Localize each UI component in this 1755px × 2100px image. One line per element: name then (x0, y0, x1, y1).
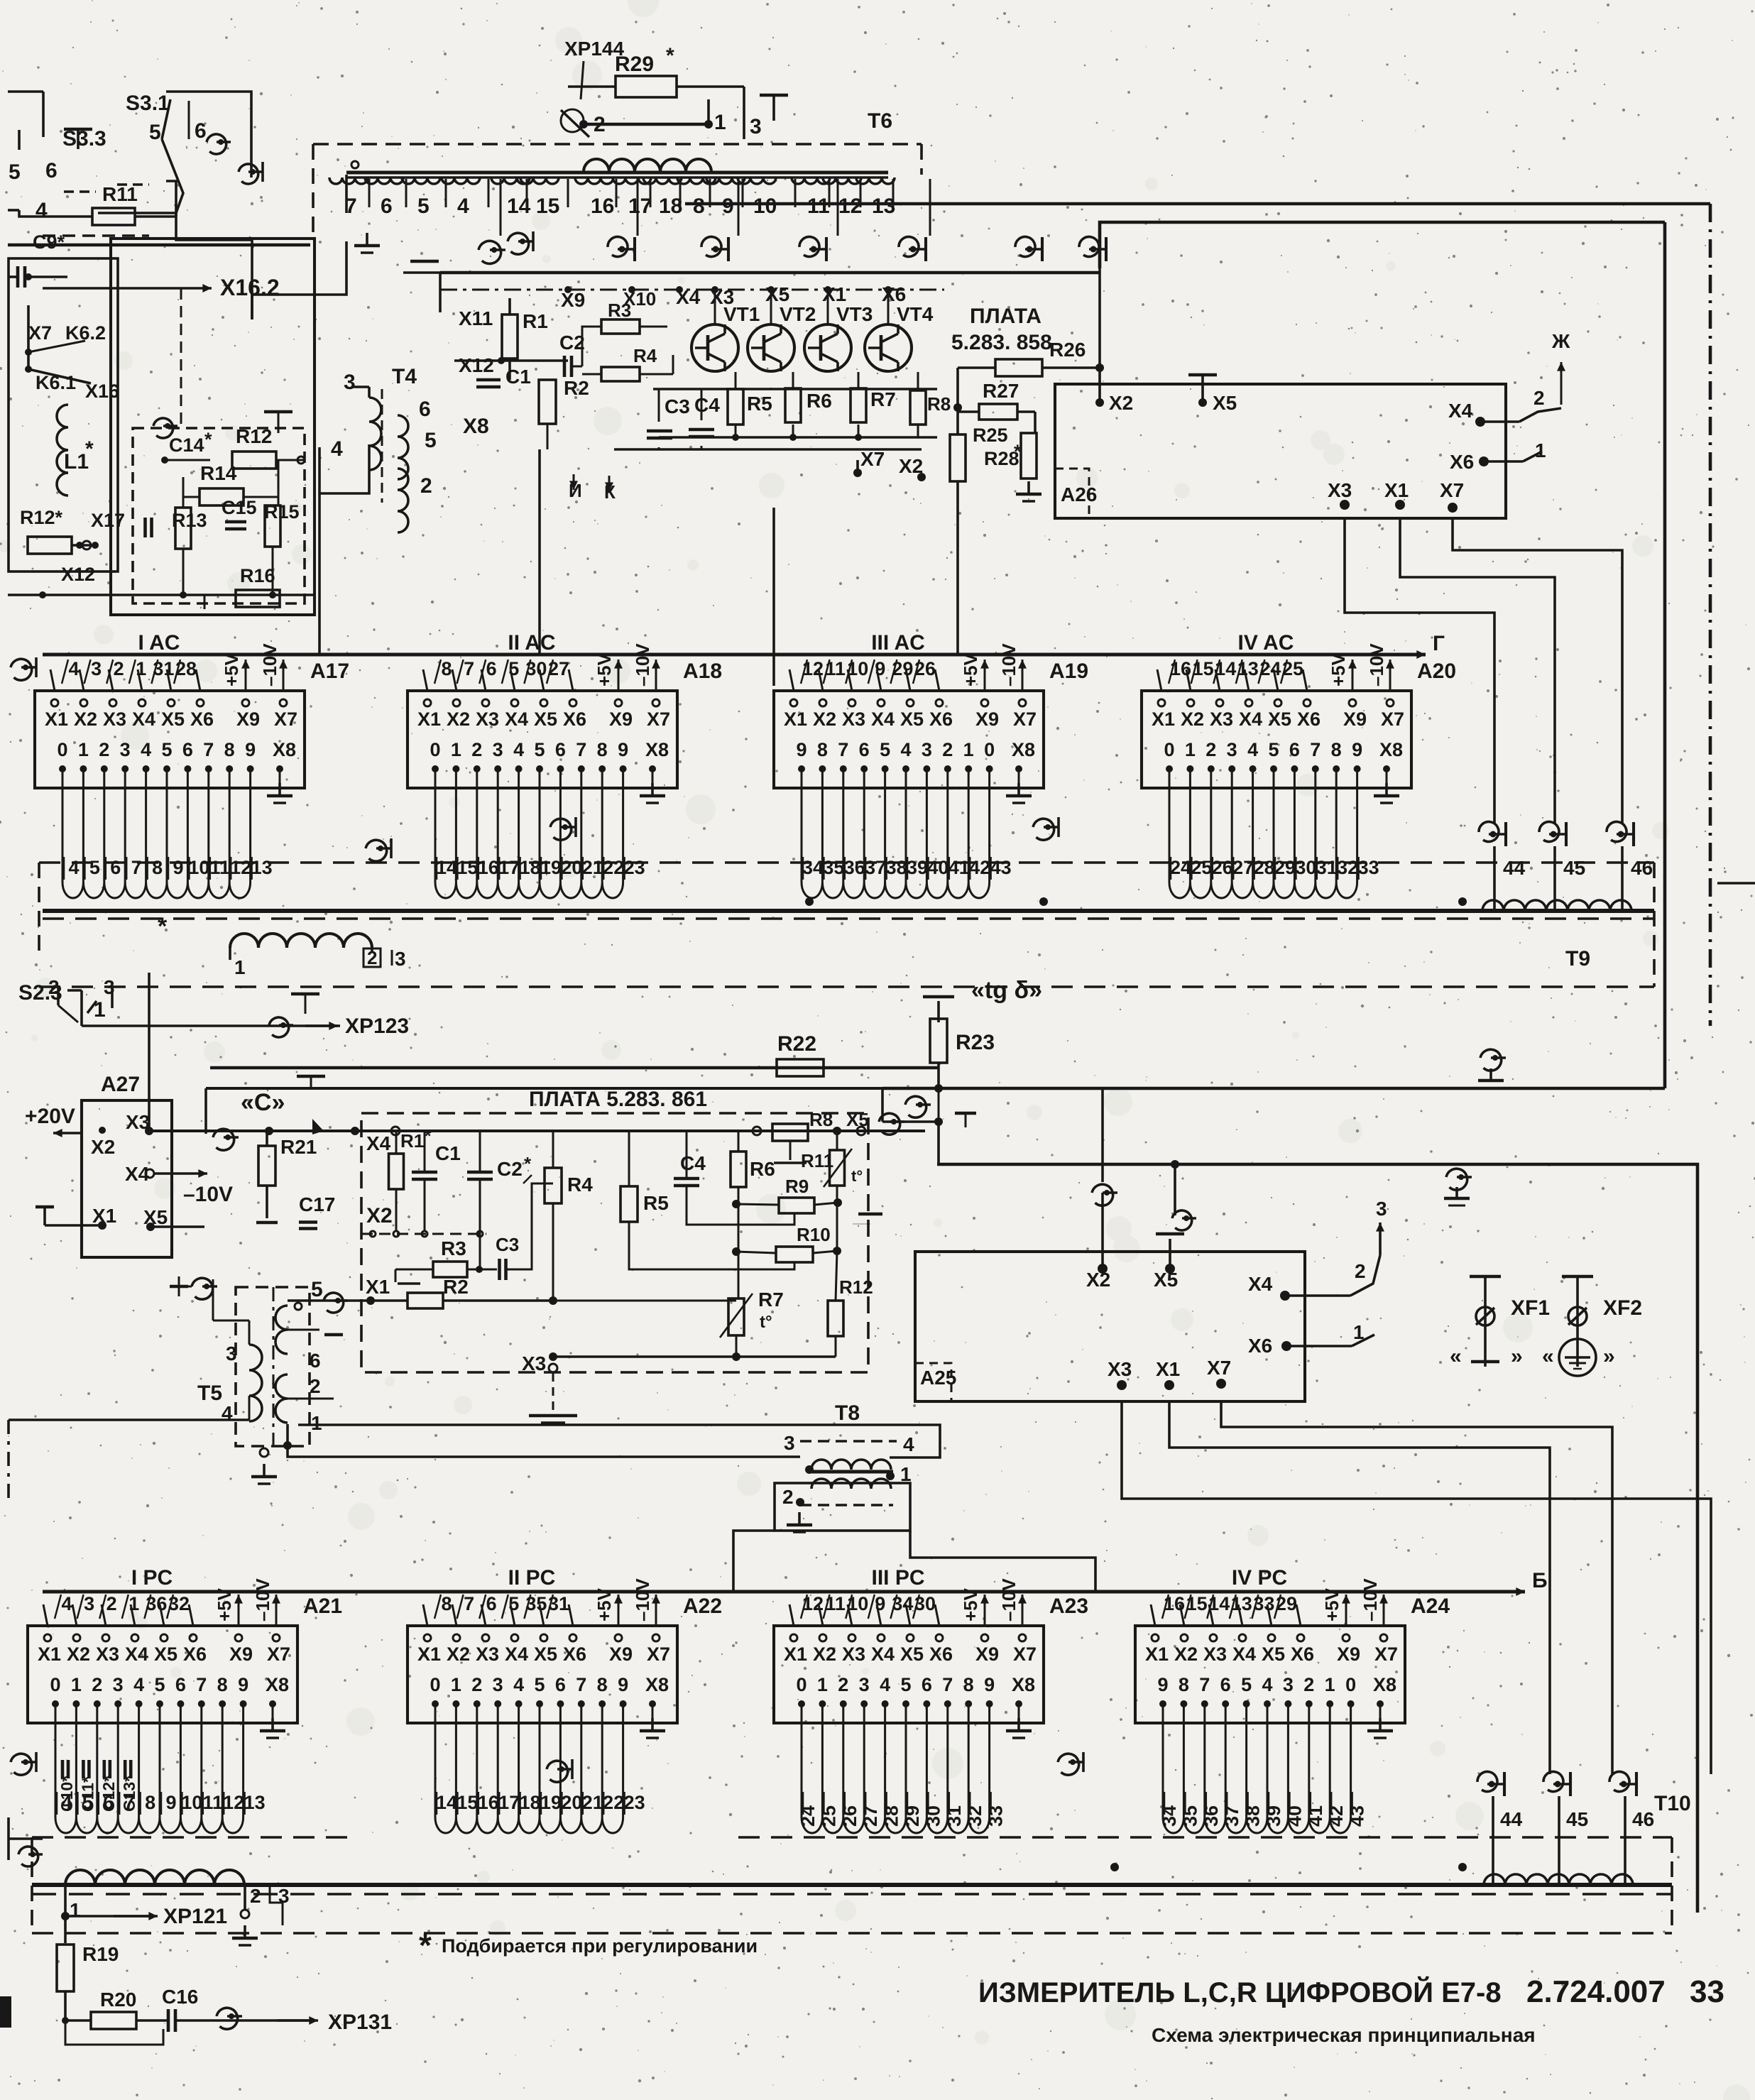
svg-text:6: 6 (1289, 739, 1300, 760)
svg-text:X8: X8 (1012, 1674, 1035, 1695)
svg-text:X8: X8 (266, 1674, 289, 1695)
svg-text:X5: X5 (1213, 392, 1237, 414)
svg-text:7: 7 (203, 739, 214, 760)
svg-text:6: 6 (310, 1350, 321, 1372)
svg-text:VT4: VT4 (897, 303, 934, 325)
svg-text:X6: X6 (1291, 1644, 1314, 1665)
svg-text:7: 7 (1310, 739, 1321, 760)
svg-text:A25: A25 (920, 1367, 956, 1389)
svg-text:36: 36 (1201, 1805, 1222, 1827)
svg-text:7: 7 (838, 739, 848, 760)
svg-text:3: 3 (395, 948, 406, 970)
svg-text:4: 4 (61, 1593, 72, 1614)
svg-text:6: 6 (381, 195, 393, 218)
svg-text:X2: X2 (91, 1136, 115, 1158)
svg-text:X5: X5 (765, 283, 789, 305)
svg-text:X5: X5 (534, 709, 557, 730)
svg-text:9: 9 (875, 1593, 885, 1614)
svg-text:«: « (1450, 1345, 1462, 1368)
svg-text:44: 44 (1503, 857, 1526, 879)
svg-text:42: 42 (969, 857, 990, 878)
svg-text:R29: R29 (615, 53, 654, 76)
svg-text:24: 24 (1170, 857, 1191, 878)
svg-text:1: 1 (714, 111, 726, 134)
svg-text:4: 4 (903, 1433, 914, 1455)
svg-text:1: 1 (1353, 1321, 1365, 1343)
svg-text:X2: X2 (447, 1644, 470, 1665)
svg-text:X5: X5 (1262, 1644, 1285, 1665)
svg-text:R14: R14 (200, 462, 237, 484)
svg-text:2.724.007: 2.724.007 (1526, 1974, 1666, 2009)
svg-text:8: 8 (1179, 1674, 1189, 1695)
svg-text:Б: Б (1532, 1569, 1548, 1592)
svg-text:9: 9 (1157, 1674, 1168, 1695)
svg-text:0: 0 (430, 1674, 440, 1695)
svg-text:3: 3 (750, 115, 762, 138)
svg-text:6: 6 (555, 739, 566, 760)
svg-text:X1: X1 (417, 709, 441, 730)
svg-text:5: 5 (534, 739, 545, 760)
svg-text:–10V: –10V (632, 643, 653, 687)
svg-text:2: 2 (1303, 1674, 1314, 1695)
svg-text:6: 6 (555, 1674, 566, 1695)
svg-text:8: 8 (441, 1593, 452, 1614)
svg-text:C3: C3 (496, 1234, 519, 1255)
svg-text:X7: X7 (1440, 479, 1464, 501)
svg-text:25: 25 (818, 1805, 839, 1827)
svg-text:1: 1 (136, 658, 146, 679)
svg-text:5: 5 (89, 857, 100, 878)
svg-text:1: 1 (963, 739, 974, 760)
svg-text:R23: R23 (956, 1031, 995, 1054)
svg-text:X1: X1 (784, 1644, 807, 1665)
svg-text:2: 2 (1355, 1260, 1366, 1282)
svg-text:X10: X10 (623, 288, 656, 310)
svg-text:4: 4 (513, 739, 524, 760)
svg-text:45: 45 (1566, 1808, 1588, 1830)
svg-text:X1: X1 (417, 1644, 441, 1665)
svg-text:X3: X3 (522, 1352, 546, 1374)
svg-text:X6: X6 (1248, 1335, 1272, 1357)
svg-text:20: 20 (561, 1792, 582, 1813)
svg-text:»: » (1603, 1345, 1615, 1368)
svg-text:X5: X5 (534, 1644, 557, 1665)
svg-text:X6: X6 (929, 709, 953, 730)
svg-text:6: 6 (1220, 1674, 1231, 1695)
svg-text:C15: C15 (222, 497, 257, 518)
svg-text:C9*: C9* (33, 231, 65, 253)
svg-text:7: 7 (196, 1674, 207, 1695)
svg-text:XP121: XP121 (163, 1905, 227, 1928)
svg-text:A27: A27 (101, 1073, 140, 1096)
svg-text:1: 1 (70, 1899, 81, 1921)
svg-text:R25: R25 (973, 425, 1008, 446)
svg-text:«: « (1542, 1345, 1554, 1368)
svg-text:22: 22 (603, 1792, 624, 1813)
svg-text:–10V: –10V (632, 1578, 653, 1622)
svg-text:X4: X4 (505, 1644, 528, 1665)
svg-text:5: 5 (508, 658, 519, 679)
svg-text:1: 1 (78, 739, 89, 760)
svg-text:3: 3 (493, 739, 503, 760)
svg-text:34: 34 (1159, 1805, 1180, 1827)
svg-text:X7: X7 (1381, 709, 1404, 730)
svg-text:29: 29 (902, 1805, 923, 1827)
svg-text:R5: R5 (643, 1192, 669, 1214)
svg-text:39: 39 (907, 857, 928, 878)
svg-text:18: 18 (520, 857, 541, 878)
svg-text:0: 0 (1164, 739, 1174, 760)
svg-text:X7: X7 (1207, 1357, 1231, 1379)
svg-text:1: 1 (234, 956, 246, 978)
svg-text:X5: X5 (161, 709, 185, 730)
svg-text:t°: t° (851, 1167, 863, 1185)
svg-text:8: 8 (145, 1792, 155, 1813)
svg-text:11: 11 (807, 195, 830, 218)
svg-text:15: 15 (536, 195, 559, 218)
svg-text:X8: X8 (1373, 1674, 1396, 1695)
svg-text:R13: R13 (172, 510, 207, 531)
svg-text:R9: R9 (785, 1176, 809, 1197)
svg-text:34: 34 (802, 857, 824, 878)
svg-text:X3: X3 (1203, 1644, 1227, 1665)
svg-text:X9: X9 (229, 1644, 253, 1665)
svg-text:A23: A23 (1049, 1595, 1088, 1618)
svg-text:32: 32 (1337, 857, 1358, 878)
svg-text:3: 3 (226, 1342, 237, 1365)
svg-text:31: 31 (944, 1805, 965, 1827)
svg-text:5: 5 (149, 121, 161, 144)
svg-text:XP123: XP123 (345, 1015, 409, 1038)
svg-text:X7: X7 (1374, 1644, 1398, 1665)
svg-text:28: 28 (881, 1805, 902, 1827)
svg-text:–10V: –10V (1366, 643, 1387, 687)
svg-text:«tg δ»: «tg δ» (971, 977, 1042, 1004)
svg-text:23: 23 (624, 857, 645, 878)
svg-text:6: 6 (45, 159, 58, 182)
svg-text:R12: R12 (236, 425, 272, 447)
svg-text:A20: A20 (1417, 660, 1456, 683)
svg-text:III PC: III PC (871, 1566, 924, 1590)
svg-text:I PC: I PC (131, 1566, 173, 1590)
svg-text:37: 37 (865, 857, 886, 878)
svg-text:1: 1 (451, 1674, 461, 1695)
svg-text:4: 4 (1262, 1674, 1272, 1695)
svg-text:X8: X8 (1379, 739, 1403, 760)
svg-text:VT3: VT3 (836, 303, 873, 325)
svg-text:28: 28 (1254, 857, 1275, 878)
svg-text:R2: R2 (443, 1276, 469, 1298)
svg-text:X3: X3 (1210, 709, 1233, 730)
svg-text:21: 21 (582, 857, 603, 878)
svg-text:12: 12 (223, 1792, 244, 1813)
svg-text:19: 19 (540, 857, 562, 878)
svg-text:6: 6 (175, 1674, 186, 1695)
svg-text:X8: X8 (645, 1674, 669, 1695)
svg-text:16: 16 (478, 857, 499, 878)
svg-text:17: 17 (498, 1792, 520, 1813)
svg-text:X6: X6 (929, 1644, 953, 1665)
svg-text:2: 2 (99, 739, 109, 760)
svg-text:X4: X4 (1239, 709, 1262, 730)
svg-text:23: 23 (624, 1792, 645, 1813)
svg-text:X4: X4 (1248, 1273, 1273, 1295)
svg-text:R4: R4 (567, 1174, 593, 1196)
svg-text:*: * (85, 437, 94, 461)
svg-text:1: 1 (311, 1412, 322, 1434)
svg-text:X4: X4 (125, 1644, 148, 1665)
svg-text:2: 2 (838, 1674, 848, 1695)
svg-text:–10V: –10V (252, 1578, 273, 1622)
svg-text:9: 9 (722, 195, 734, 218)
svg-text:12: 12 (230, 857, 251, 878)
svg-text:8: 8 (1331, 739, 1342, 760)
svg-text:5: 5 (425, 429, 437, 452)
svg-text:A24: A24 (1411, 1595, 1450, 1618)
svg-text:7: 7 (131, 857, 142, 878)
svg-text:3: 3 (1376, 1198, 1387, 1220)
svg-text:X6: X6 (190, 709, 214, 730)
svg-text:3: 3 (493, 1674, 503, 1695)
svg-text:–10V: –10V (998, 643, 1019, 687)
svg-text:X1: X1 (366, 1276, 390, 1298)
svg-text:X2: X2 (1174, 1644, 1198, 1665)
svg-text:12: 12 (838, 195, 862, 218)
svg-text:2: 2 (106, 1593, 117, 1614)
svg-text:X9: X9 (1343, 709, 1367, 730)
svg-text:9: 9 (796, 739, 807, 760)
svg-text:T10: T10 (1654, 1792, 1691, 1815)
svg-text:41: 41 (1305, 1805, 1326, 1827)
svg-text:X6: X6 (563, 709, 586, 730)
svg-text:XF1: XF1 (1511, 1296, 1550, 1320)
svg-text:2: 2 (420, 474, 432, 498)
svg-text:R7: R7 (758, 1289, 784, 1311)
svg-text:5: 5 (508, 1593, 519, 1614)
svg-text:X7: X7 (274, 709, 297, 730)
svg-text:10: 10 (188, 857, 209, 878)
svg-text:X2: X2 (1109, 392, 1133, 414)
svg-text:+20V: +20V (25, 1105, 75, 1128)
svg-text:18: 18 (659, 195, 682, 218)
svg-text:X2: X2 (74, 709, 97, 730)
svg-text:6: 6 (195, 119, 207, 143)
svg-text:26: 26 (1212, 857, 1233, 878)
svg-text:R10: R10 (797, 1224, 831, 1245)
svg-text:8: 8 (693, 195, 705, 218)
svg-text:43: 43 (1347, 1805, 1368, 1827)
svg-text:C17: C17 (299, 1193, 335, 1215)
svg-text:21: 21 (582, 1792, 603, 1813)
svg-text:R8: R8 (809, 1109, 833, 1130)
svg-text:C2: C2 (559, 332, 585, 354)
svg-text:III AC: III AC (871, 631, 925, 655)
svg-text:Подбирается при регулировани: Подбирается при регулировании (442, 1935, 758, 1957)
svg-text:33: 33 (1690, 1974, 1724, 2009)
svg-text:8: 8 (224, 739, 235, 760)
svg-text:X9: X9 (609, 709, 633, 730)
svg-text:X4: X4 (1232, 1644, 1256, 1665)
svg-text:X4: X4 (505, 709, 528, 730)
svg-text:33: 33 (985, 1805, 1007, 1827)
svg-text:R12*: R12* (20, 507, 63, 528)
svg-text:C13*: C13* (120, 1776, 138, 1812)
svg-text:11: 11 (210, 857, 231, 878)
svg-text:X8: X8 (463, 415, 489, 438)
svg-text:3: 3 (1283, 1674, 1294, 1695)
svg-text:22: 22 (603, 857, 624, 878)
svg-text:X4: X4 (132, 709, 155, 730)
svg-text:A18: A18 (683, 660, 722, 683)
svg-text:38: 38 (1242, 1805, 1264, 1827)
svg-text:X8: X8 (645, 739, 669, 760)
svg-text:9: 9 (875, 658, 885, 679)
svg-text:8: 8 (597, 1674, 608, 1695)
svg-text:29: 29 (1274, 857, 1296, 878)
svg-text:X9: X9 (975, 1644, 999, 1665)
svg-text:T6: T6 (868, 109, 892, 133)
svg-text:C14: C14 (169, 434, 204, 456)
svg-text:25: 25 (1191, 857, 1212, 878)
svg-text:X3: X3 (476, 1644, 499, 1665)
svg-text:5: 5 (534, 1674, 545, 1695)
svg-text:A21: A21 (303, 1595, 342, 1618)
svg-text:II AC: II AC (508, 631, 555, 655)
svg-text:T8: T8 (835, 1401, 860, 1425)
svg-text:4: 4 (1247, 739, 1258, 760)
svg-text:0: 0 (57, 739, 67, 760)
svg-text:C1: C1 (435, 1142, 461, 1164)
svg-text:X9: X9 (609, 1644, 633, 1665)
svg-text:C4: C4 (680, 1152, 706, 1174)
svg-text:X5: X5 (1268, 709, 1291, 730)
svg-text:*: * (158, 913, 168, 940)
svg-text:27: 27 (860, 1805, 881, 1827)
svg-text:«C»: «C» (241, 1089, 285, 1116)
svg-text:9: 9 (238, 1674, 248, 1695)
svg-text:15: 15 (456, 1792, 478, 1813)
svg-text:39: 39 (1263, 1805, 1284, 1827)
svg-text:R8: R8 (927, 393, 951, 415)
svg-text:32: 32 (964, 1805, 985, 1827)
svg-text:C11*: C11* (78, 1776, 97, 1812)
svg-text:4: 4 (513, 1674, 524, 1695)
svg-text:X3: X3 (103, 709, 126, 730)
svg-text:36: 36 (844, 857, 865, 878)
svg-text:14: 14 (436, 1792, 457, 1813)
svg-text:40: 40 (1284, 1805, 1305, 1827)
svg-text:15: 15 (456, 857, 478, 878)
svg-text:C1: C1 (505, 366, 531, 388)
svg-text:X8: X8 (1012, 739, 1035, 760)
svg-text:X17: X17 (91, 510, 125, 531)
svg-text:S3.1: S3.1 (126, 92, 170, 115)
svg-text:X1: X1 (822, 283, 846, 305)
svg-text:45: 45 (1563, 857, 1585, 879)
svg-text:10: 10 (753, 195, 777, 218)
svg-text:19: 19 (540, 1792, 562, 1813)
svg-text:17: 17 (628, 195, 652, 218)
svg-text:3: 3 (1227, 739, 1237, 760)
svg-text:X9: X9 (561, 289, 585, 311)
svg-text:R4: R4 (633, 345, 657, 366)
svg-text:X2: X2 (1086, 1269, 1110, 1291)
svg-text:A22: A22 (683, 1595, 722, 1618)
svg-text:3: 3 (922, 739, 932, 760)
svg-text:*: * (204, 429, 212, 450)
svg-text:2: 2 (942, 739, 953, 760)
svg-text:X3: X3 (1328, 479, 1352, 501)
svg-text:A17: A17 (310, 660, 349, 683)
svg-text:5: 5 (1241, 1674, 1252, 1695)
svg-text:X1: X1 (38, 1644, 61, 1665)
svg-text:13: 13 (251, 857, 273, 878)
svg-text:1: 1 (817, 1674, 828, 1695)
svg-text:Схема электрическая принципи: Схема электрическая принципиальная (1152, 2024, 1536, 2046)
svg-text:8: 8 (441, 658, 452, 679)
svg-text:R19: R19 (82, 1943, 119, 1965)
svg-text:1: 1 (451, 739, 461, 760)
svg-text:6: 6 (182, 739, 193, 760)
svg-text:40: 40 (927, 857, 948, 878)
svg-text:R3: R3 (441, 1237, 466, 1259)
svg-text:5: 5 (1268, 739, 1279, 760)
svg-text:–10V: –10V (998, 1578, 1019, 1622)
svg-text:R27: R27 (983, 380, 1019, 402)
svg-text:X6: X6 (563, 1644, 586, 1665)
svg-text:X9: X9 (1337, 1644, 1360, 1665)
svg-text:27: 27 (1232, 857, 1254, 878)
svg-text:4: 4 (880, 1674, 890, 1695)
svg-text:3: 3 (344, 371, 356, 394)
svg-text:X4: X4 (871, 709, 895, 730)
svg-text:8: 8 (217, 1674, 228, 1695)
svg-text:0: 0 (1345, 1674, 1356, 1695)
svg-text:13: 13 (244, 1792, 266, 1813)
svg-text:3: 3 (120, 739, 131, 760)
svg-text:R26: R26 (1049, 339, 1086, 361)
svg-text:A26: A26 (1061, 483, 1097, 505)
svg-text:X3: X3 (96, 1644, 119, 1665)
svg-text:t°: t° (760, 1313, 772, 1332)
svg-text:X4: X4 (871, 1644, 895, 1665)
svg-text:X7: X7 (1013, 709, 1037, 730)
svg-text:7: 7 (576, 739, 586, 760)
svg-text:7: 7 (464, 1593, 474, 1614)
svg-text:4: 4 (331, 437, 343, 461)
svg-text:3: 3 (91, 658, 102, 679)
svg-text:–10V: –10V (259, 643, 280, 687)
svg-text:4: 4 (68, 658, 79, 679)
svg-text:C3: C3 (665, 395, 690, 417)
svg-text:X7: X7 (267, 1644, 290, 1665)
svg-text:3: 3 (113, 1674, 124, 1695)
svg-text:X2: X2 (1181, 709, 1204, 730)
svg-text:X6: X6 (1450, 451, 1474, 473)
svg-text:38: 38 (886, 857, 907, 878)
svg-text:6: 6 (486, 1593, 497, 1614)
svg-text:14: 14 (436, 857, 457, 878)
svg-text:2: 2 (1533, 387, 1545, 409)
svg-text:+5V: +5V (960, 1587, 981, 1622)
svg-text:20: 20 (561, 857, 582, 878)
svg-text:4: 4 (35, 199, 48, 222)
svg-text:35: 35 (823, 857, 844, 878)
svg-text:16: 16 (591, 195, 614, 218)
svg-text:R16: R16 (240, 565, 275, 586)
svg-text:T5: T5 (197, 1382, 222, 1405)
svg-text:5.283. 858: 5.283. 858 (951, 331, 1052, 354)
